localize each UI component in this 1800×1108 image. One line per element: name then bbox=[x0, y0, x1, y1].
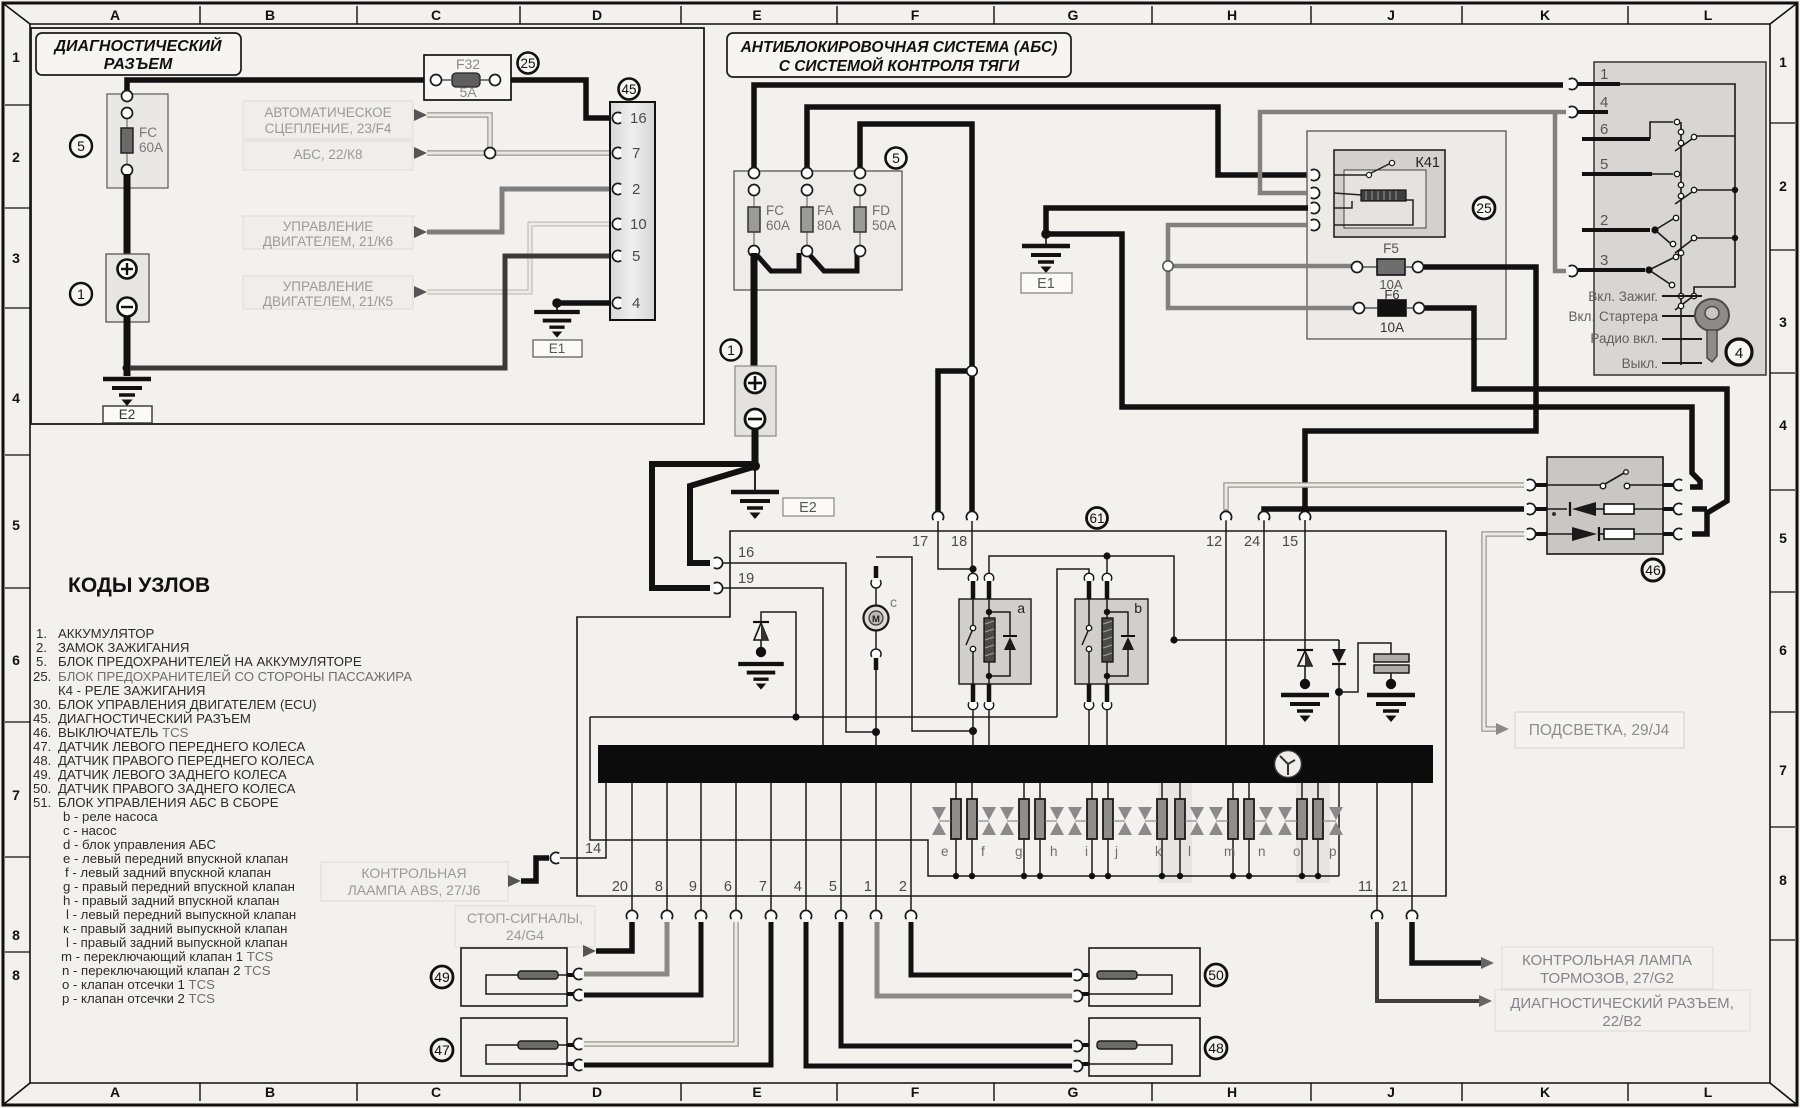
svg-text:ДВИГАТЕЛЕМ, 21/К6: ДВИГАТЕЛЕМ, 21/К6 bbox=[263, 234, 393, 249]
svg-text:49: 49 bbox=[434, 969, 450, 985]
svg-text:2: 2 bbox=[1779, 178, 1787, 194]
svg-text:2: 2 bbox=[12, 149, 20, 165]
svg-text:12: 12 bbox=[1206, 534, 1222, 550]
svg-text:7: 7 bbox=[1779, 762, 1787, 778]
svg-text:a: a bbox=[1017, 600, 1025, 616]
svg-text:E: E bbox=[752, 1084, 761, 1100]
svg-text:ТОРМОЗОВ, 27/G2: ТОРМОЗОВ, 27/G2 bbox=[1540, 970, 1674, 987]
svg-text:48: 48 bbox=[1208, 1040, 1224, 1056]
svg-text:24: 24 bbox=[1244, 534, 1260, 550]
svg-text:1: 1 bbox=[1600, 66, 1608, 83]
svg-text:F: F bbox=[911, 7, 920, 23]
svg-text:47.: 47. bbox=[33, 739, 51, 754]
svg-text:8: 8 bbox=[12, 967, 20, 983]
svg-text:9: 9 bbox=[689, 879, 697, 895]
svg-text:4: 4 bbox=[1600, 94, 1608, 111]
svg-text:ДИАГНОСТИЧЕСКИЙ РАЗЪЕМ: ДИАГНОСТИЧЕСКИЙ РАЗЪЕМ bbox=[58, 711, 251, 726]
svg-text:48.: 48. bbox=[33, 753, 51, 768]
svg-text:60A: 60A bbox=[766, 218, 790, 233]
svg-text:6: 6 bbox=[1600, 121, 1608, 138]
svg-text:E1: E1 bbox=[1037, 276, 1055, 292]
svg-text:61: 61 bbox=[1089, 511, 1104, 526]
svg-text:БЛОК УПРАВЛЕНИЯ ДВИГАТЕЛЕМ (EC: БЛОК УПРАВЛЕНИЯ ДВИГАТЕЛЕМ (ECU) bbox=[58, 697, 317, 712]
svg-text:КОДЫ УЗЛОВ: КОДЫ УЗЛОВ bbox=[68, 574, 210, 597]
svg-text:СЦЕПЛЕНИЕ, 23/F4: СЦЕПЛЕНИЕ, 23/F4 bbox=[265, 121, 392, 136]
svg-text:4: 4 bbox=[12, 390, 20, 406]
svg-text:к - правый задний выпускной кл: к - правый задний выпускной клапан bbox=[63, 921, 287, 936]
svg-text:f - левый задний впускной кла: f - левый задний впускной клапан bbox=[65, 865, 271, 880]
svg-text:A: A bbox=[110, 1084, 120, 1100]
svg-text:22/В2: 22/В2 bbox=[1602, 1013, 1641, 1030]
svg-text:FC: FC bbox=[139, 125, 157, 140]
svg-text:2: 2 bbox=[632, 181, 640, 198]
svg-text:G: G bbox=[1068, 7, 1079, 23]
svg-text:5: 5 bbox=[632, 248, 640, 265]
svg-text:F5: F5 bbox=[1383, 241, 1399, 256]
svg-text:5.: 5. bbox=[36, 654, 47, 669]
svg-text:БЛОК ПРЕДОХРАНИТЕЛЕЙ СО СТОРОН: БЛОК ПРЕДОХРАНИТЕЛЕЙ СО СТОРОНЫ ПАССАЖИР… bbox=[58, 669, 412, 684]
svg-text:FC: FC bbox=[766, 203, 784, 218]
svg-text:F: F bbox=[911, 1084, 920, 1100]
svg-text:3: 3 bbox=[12, 250, 20, 266]
svg-text:FD: FD bbox=[872, 203, 890, 218]
svg-text:E2: E2 bbox=[799, 500, 817, 516]
svg-text:УПРАВЛЕНИЕ: УПРАВЛЕНИЕ bbox=[283, 279, 374, 294]
svg-text:6: 6 bbox=[1779, 642, 1787, 658]
svg-text:F32: F32 bbox=[456, 56, 480, 72]
svg-text:1.: 1. bbox=[36, 626, 47, 641]
svg-text:C: C bbox=[431, 1084, 441, 1100]
svg-text:ДАТЧИК ПРАВОГО ПЕРЕДНЕГО КОЛЕС: ДАТЧИК ПРАВОГО ПЕРЕДНЕГО КОЛЕСА bbox=[58, 753, 314, 768]
svg-text:БЛОК ПРЕДОХРАНИТЕЛЕЙ НА АККУМУ: БЛОК ПРЕДОХРАНИТЕЛЕЙ НА АККУМУЛЯТОРЕ bbox=[58, 654, 362, 669]
svg-text:7: 7 bbox=[632, 145, 640, 162]
svg-text:f: f bbox=[981, 844, 985, 859]
svg-text:25: 25 bbox=[1476, 200, 1492, 216]
svg-text:К41: К41 bbox=[1415, 155, 1440, 171]
svg-text:B: B bbox=[265, 7, 275, 23]
svg-text:c - насос: c - насос bbox=[63, 823, 117, 838]
svg-text:60A: 60A bbox=[139, 140, 163, 155]
svg-text:E: E bbox=[752, 7, 761, 23]
svg-text:G: G bbox=[1068, 1084, 1079, 1100]
svg-text:6: 6 bbox=[724, 879, 732, 895]
svg-text:25.: 25. bbox=[33, 669, 51, 684]
svg-text:5: 5 bbox=[892, 150, 900, 166]
svg-text:m - переключающий клапан 1 TC: m - переключающий клапан 1 TCS bbox=[61, 949, 273, 964]
svg-text:l: l bbox=[1188, 844, 1191, 859]
svg-text:H: H bbox=[1227, 7, 1237, 23]
svg-text:K: K bbox=[1540, 1084, 1550, 1100]
svg-text:g - правый передний впускной к: g - правый передний впускной клапан bbox=[63, 879, 295, 894]
svg-text:M: M bbox=[872, 614, 880, 625]
svg-text:ЗАМОК ЗАЖИГАНИЯ: ЗАМОК ЗАЖИГАНИЯ bbox=[58, 640, 189, 655]
svg-text:d - блок управления АБС: d - блок управления АБС bbox=[63, 837, 217, 852]
svg-text:10A: 10A bbox=[1380, 320, 1404, 335]
svg-text:ДИАГНОСТИЧЕСКИЙ: ДИАГНОСТИЧЕСКИЙ bbox=[52, 35, 222, 55]
svg-text:p - клапан отсечки 2 TCS: p - клапан отсечки 2 TCS bbox=[62, 991, 215, 1006]
svg-text:j: j bbox=[1114, 844, 1118, 859]
svg-text:45: 45 bbox=[621, 82, 636, 97]
svg-text:m: m bbox=[1224, 844, 1235, 859]
svg-text:49.: 49. bbox=[33, 767, 51, 782]
svg-text:p: p bbox=[1329, 844, 1337, 859]
svg-text:2.: 2. bbox=[36, 640, 47, 655]
svg-text:15: 15 bbox=[1282, 534, 1298, 550]
svg-text:ПОДСВЕТКА, 29/J4: ПОДСВЕТКА, 29/J4 bbox=[1529, 722, 1670, 739]
svg-text:Выкл.: Выкл. bbox=[1622, 356, 1658, 371]
svg-text:11: 11 bbox=[1358, 879, 1373, 895]
svg-text:8: 8 bbox=[1779, 872, 1787, 888]
svg-text:C: C bbox=[431, 7, 441, 23]
svg-text:g: g bbox=[1015, 844, 1023, 859]
svg-text:5: 5 bbox=[12, 517, 20, 533]
svg-text:ДВИГАТЕЛЕМ, 21/К5: ДВИГАТЕЛЕМ, 21/К5 bbox=[263, 294, 393, 309]
svg-text:50A: 50A bbox=[872, 218, 896, 233]
svg-text:5: 5 bbox=[1779, 530, 1787, 546]
svg-text:8: 8 bbox=[655, 879, 663, 895]
svg-text:16: 16 bbox=[738, 545, 754, 561]
svg-text:b - реле насоса: b - реле насоса bbox=[63, 809, 158, 824]
svg-text:1: 1 bbox=[12, 49, 20, 65]
svg-text:10: 10 bbox=[630, 216, 647, 233]
svg-text:ДАТЧИК ЛЕВОГО ЗАДНЕГО КОЛЕСА: ДАТЧИК ЛЕВОГО ЗАДНЕГО КОЛЕСА bbox=[58, 767, 287, 782]
svg-text:5: 5 bbox=[77, 138, 85, 154]
svg-text:24/G4: 24/G4 bbox=[506, 927, 544, 943]
svg-text:25: 25 bbox=[520, 56, 535, 71]
svg-text:47: 47 bbox=[434, 1042, 450, 1058]
svg-text:1: 1 bbox=[77, 286, 85, 302]
svg-text:D: D bbox=[592, 7, 602, 23]
svg-text:14: 14 bbox=[585, 841, 601, 857]
svg-text:n: n bbox=[1258, 844, 1266, 859]
svg-text:45.: 45. bbox=[33, 711, 51, 726]
svg-text:16: 16 bbox=[630, 110, 647, 127]
svg-text:4: 4 bbox=[632, 295, 640, 312]
svg-text:20: 20 bbox=[612, 879, 628, 895]
svg-text:8: 8 bbox=[12, 927, 20, 943]
svg-text:n - переключающий клапан 2 TC: n - переключающий клапан 2 TCS bbox=[62, 963, 271, 978]
svg-text:h: h bbox=[1050, 844, 1058, 859]
svg-text:19: 19 bbox=[738, 571, 754, 587]
svg-text:7: 7 bbox=[759, 879, 767, 895]
svg-text:АБС, 22/К8: АБС, 22/К8 bbox=[293, 147, 362, 162]
svg-text:УПРАВЛЕНИЕ: УПРАВЛЕНИЕ bbox=[283, 219, 374, 234]
svg-text:18: 18 bbox=[951, 534, 967, 550]
svg-text:ВЫКЛЮЧАТЕЛЬ TCS: ВЫКЛЮЧАТЕЛЬ TCS bbox=[58, 725, 189, 740]
svg-text:6: 6 bbox=[12, 652, 20, 668]
svg-text:5: 5 bbox=[1600, 156, 1608, 173]
svg-text:3: 3 bbox=[1779, 314, 1787, 330]
svg-text:K: K bbox=[1540, 7, 1550, 23]
svg-text:1: 1 bbox=[1779, 54, 1787, 70]
svg-text:5A: 5A bbox=[459, 84, 477, 100]
svg-text:A: A bbox=[110, 7, 120, 23]
svg-text:50: 50 bbox=[1208, 967, 1224, 983]
svg-text:Вкл. Зажиг.: Вкл. Зажиг. bbox=[1588, 289, 1658, 304]
svg-text:5: 5 bbox=[829, 879, 837, 895]
svg-text:ДИАГНОСТИЧЕСКИЙ РАЗЪЕМ,: ДИАГНОСТИЧЕСКИЙ РАЗЪЕМ, bbox=[1510, 994, 1734, 1012]
svg-text:46.: 46. bbox=[33, 725, 51, 740]
svg-text:КОНТРОЛЬНАЯ: КОНТРОЛЬНАЯ bbox=[361, 865, 466, 881]
svg-text:30.: 30. bbox=[33, 697, 51, 712]
svg-text:4: 4 bbox=[794, 879, 802, 895]
svg-text:4: 4 bbox=[1779, 417, 1787, 433]
svg-text:РАЗЪЕМ: РАЗЪЕМ bbox=[104, 56, 173, 73]
svg-text:ЛААМПА ABS, 27/J6: ЛААМПА ABS, 27/J6 bbox=[348, 882, 481, 898]
svg-text:FA: FA bbox=[817, 203, 834, 218]
svg-text:2: 2 bbox=[1600, 212, 1608, 229]
svg-text:80A: 80A bbox=[817, 218, 841, 233]
svg-text:1: 1 bbox=[727, 342, 735, 358]
svg-text:2: 2 bbox=[899, 879, 907, 895]
svg-text:D: D bbox=[592, 1084, 602, 1100]
svg-text:1: 1 bbox=[864, 879, 872, 895]
svg-text:e - левый передний впускной кл: e - левый передний впускной клапан bbox=[63, 851, 288, 866]
svg-text:h - правый задний впускной кла: h - правый задний впускной клапан bbox=[63, 893, 279, 908]
svg-text:АККУМУЛЯТОР: АККУМУЛЯТОР bbox=[58, 626, 155, 641]
svg-text:АНТИБЛОКИРОВОЧНАЯ СИСТЕМА (АБ: АНТИБЛОКИРОВОЧНАЯ СИСТЕМА (АБС) bbox=[740, 39, 1058, 56]
svg-text:e: e bbox=[941, 844, 949, 859]
svg-text:4: 4 bbox=[1735, 345, 1743, 362]
svg-text:c: c bbox=[890, 594, 897, 610]
svg-text:3: 3 bbox=[1600, 252, 1608, 269]
svg-text:b: b bbox=[1134, 600, 1142, 616]
svg-text:50.: 50. bbox=[33, 781, 51, 796]
svg-text:ДАТЧИК ЛЕВОГО ПЕРЕДНЕГО КОЛЕСА: ДАТЧИК ЛЕВОГО ПЕРЕДНЕГО КОЛЕСА bbox=[58, 739, 306, 754]
svg-text:B: B bbox=[265, 1084, 275, 1100]
svg-text:J: J bbox=[1387, 7, 1395, 23]
svg-text:o: o bbox=[1293, 844, 1301, 859]
svg-text:Вкл. Стартера: Вкл. Стартера bbox=[1569, 309, 1659, 324]
svg-text:АВТОМАТИЧЕСКОЕ: АВТОМАТИЧЕСКОЕ bbox=[264, 105, 391, 120]
svg-text:ДАТЧИК ПРАВОГО ЗАДНЕГО КОЛЕСА: ДАТЧИК ПРАВОГО ЗАДНЕГО КОЛЕСА bbox=[58, 781, 296, 796]
svg-text:H: H bbox=[1227, 1084, 1237, 1100]
svg-text:46: 46 bbox=[1645, 562, 1661, 578]
svg-text:E2: E2 bbox=[119, 407, 136, 422]
svg-text:БЛОК УПРАВЛЕНИЯ АБС В СБОРЕ: БЛОК УПРАВЛЕНИЯ АБС В СБОРЕ bbox=[58, 795, 279, 810]
svg-text:L: L bbox=[1704, 7, 1713, 23]
svg-text:l - левый передний выпускной к: l - левый передний выпускной клапан bbox=[66, 907, 296, 922]
svg-text:E1: E1 bbox=[549, 341, 566, 356]
svg-text:l - правый задний выпускной кл: l - правый задний выпускной клапан bbox=[66, 935, 288, 950]
svg-text:С СИСТЕМОЙ КОНТРОЛЯ ТЯГИ: С СИСТЕМОЙ КОНТРОЛЯ ТЯГИ bbox=[779, 57, 1020, 75]
svg-text:СТОП-СИГНАЛЫ,: СТОП-СИГНАЛЫ, bbox=[467, 910, 583, 926]
svg-text:51.: 51. bbox=[33, 795, 51, 810]
svg-text:o - клапан отсечки 1 TCS: o - клапан отсечки 1 TCS bbox=[62, 977, 215, 992]
svg-text:КОНТРОЛЬНАЯ ЛАМПА: КОНТРОЛЬНАЯ ЛАМПА bbox=[1522, 952, 1692, 969]
svg-text:L: L bbox=[1704, 1084, 1713, 1100]
svg-text:k: k bbox=[1155, 844, 1162, 859]
svg-text:J: J bbox=[1387, 1084, 1395, 1100]
svg-text:Радио вкл.: Радио вкл. bbox=[1590, 331, 1658, 346]
svg-text:i: i bbox=[1085, 844, 1088, 859]
svg-text:7: 7 bbox=[12, 787, 20, 803]
svg-text:К4 - РЕЛЕ ЗАЖИГАНИЯ: К4 - РЕЛЕ ЗАЖИГАНИЯ bbox=[58, 683, 205, 698]
svg-text:17: 17 bbox=[912, 534, 928, 550]
svg-text:21: 21 bbox=[1392, 879, 1408, 895]
